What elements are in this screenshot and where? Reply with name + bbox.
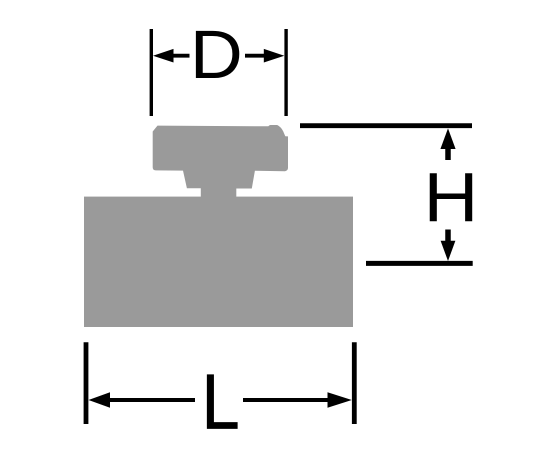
dimension H: down arrow (points down) <box>441 230 456 262</box>
svg-text:H: H <box>424 159 479 237</box>
svg-text:D: D <box>190 17 243 93</box>
dimension L: right extension line <box>352 342 357 424</box>
dimension H: bottom extension line <box>366 261 473 266</box>
dimension H: up arrow (points up) <box>440 128 455 160</box>
dimension H: top extension line <box>300 123 472 128</box>
dimension D: right extension line <box>284 29 287 116</box>
dimension L: right arrow (points right) <box>243 392 352 407</box>
dimension D: right arrow (points right) <box>245 49 284 63</box>
dimension D: left extension line <box>150 29 153 116</box>
valve body (gray rectangle) <box>84 197 353 327</box>
svg-text:L: L <box>202 358 240 445</box>
valve handle / knob with stem (gray silhouette) <box>153 125 288 199</box>
dimension D: left arrow (points left) <box>153 49 190 63</box>
dimension L: left arrow (points left) <box>89 392 196 407</box>
dimension L: left extension line <box>84 342 89 424</box>
